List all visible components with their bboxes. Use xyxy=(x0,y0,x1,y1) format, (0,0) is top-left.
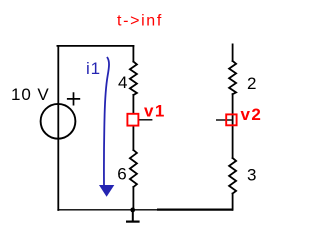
svg-text:t->inf: t->inf xyxy=(117,12,163,29)
svg-text:3: 3 xyxy=(247,166,256,185)
svg-text:v2: v2 xyxy=(241,105,263,124)
svg-text:4: 4 xyxy=(118,73,127,92)
svg-text:2: 2 xyxy=(247,74,256,93)
svg-text:v1: v1 xyxy=(144,101,166,120)
svg-text:6: 6 xyxy=(117,164,126,183)
svg-text:i1: i1 xyxy=(86,59,101,78)
svg-text:10 V: 10 V xyxy=(11,85,50,104)
